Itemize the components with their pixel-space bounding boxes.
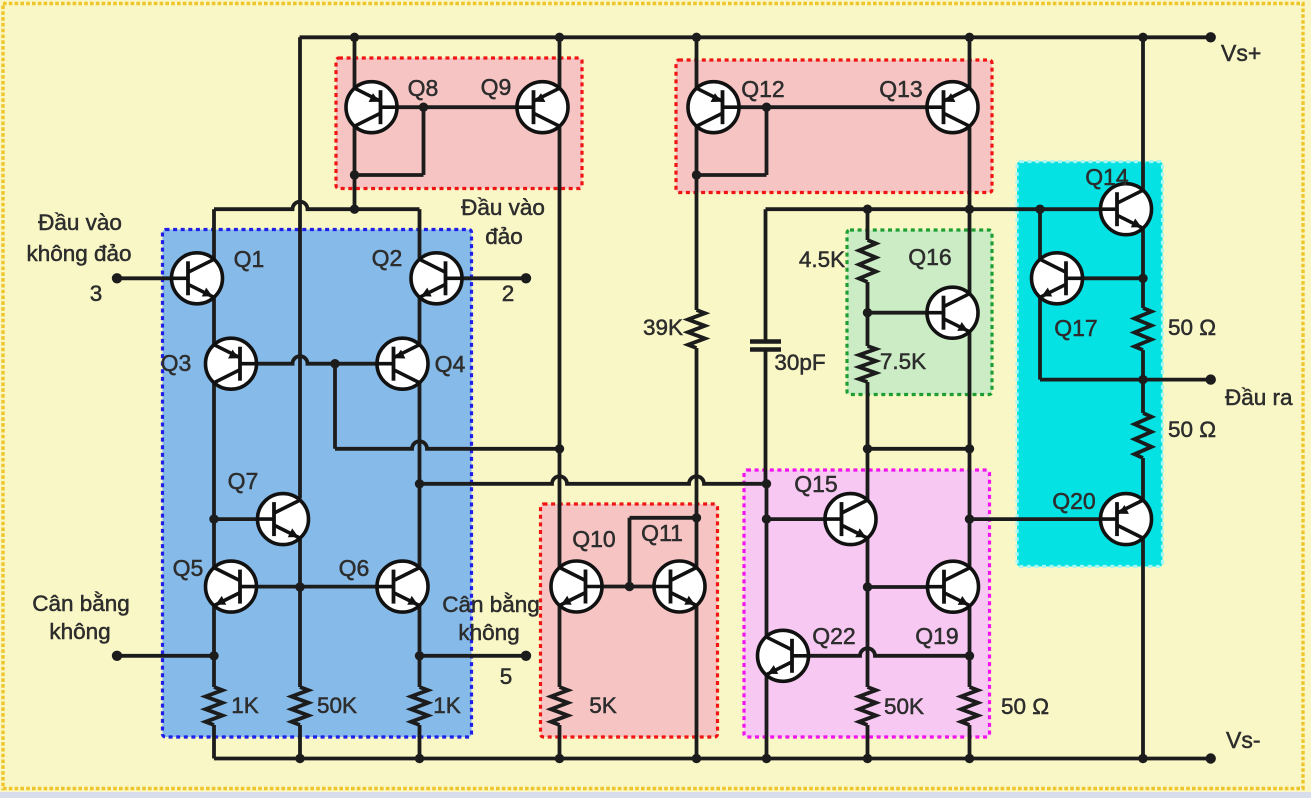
svg-text:Q13: Q13 (879, 76, 922, 102)
svg-text:Q11: Q11 (641, 520, 683, 546)
svg-text:50 Ω: 50 Ω (1168, 315, 1216, 340)
svg-text:5K: 5K (589, 693, 617, 718)
svg-text:Q20: Q20 (1052, 488, 1095, 514)
svg-text:không: không (49, 619, 110, 644)
svg-text:2: 2 (502, 281, 515, 306)
svg-text:Q15: Q15 (794, 471, 837, 497)
svg-text:Cân bằng: Cân bằng (442, 592, 540, 617)
svg-text:Q5: Q5 (173, 555, 204, 581)
svg-text:Q14: Q14 (1085, 164, 1129, 190)
svg-text:Q1: Q1 (234, 246, 265, 272)
svg-text:Q8: Q8 (408, 75, 439, 101)
svg-text:39K: 39K (643, 315, 683, 340)
svg-text:30pF: 30pF (774, 350, 825, 375)
svg-text:50K: 50K (884, 694, 924, 719)
svg-text:Q22: Q22 (812, 623, 855, 649)
svg-text:Q7: Q7 (228, 468, 259, 494)
svg-text:không đảo: không đảo (26, 241, 131, 266)
svg-text:3: 3 (90, 281, 103, 306)
svg-text:Vs-: Vs- (1226, 727, 1261, 753)
svg-text:Q17: Q17 (1054, 315, 1097, 341)
svg-text:50 Ω: 50 Ω (1168, 417, 1216, 442)
svg-text:Đầu vào: Đầu vào (461, 195, 545, 220)
svg-text:Q2: Q2 (372, 245, 403, 271)
svg-text:Đầu vào: Đầu vào (38, 210, 122, 235)
svg-text:1K: 1K (231, 693, 259, 718)
svg-text:Q19: Q19 (915, 623, 958, 649)
svg-text:Cân bằng: Cân bằng (32, 591, 130, 616)
svg-text:Q3: Q3 (161, 350, 192, 376)
svg-text:Q12: Q12 (741, 76, 784, 102)
svg-text:50K: 50K (317, 693, 357, 718)
svg-text:Vs+: Vs+ (1221, 40, 1261, 66)
svg-text:7.5K: 7.5K (880, 349, 926, 374)
svg-text:4.5K: 4.5K (799, 247, 845, 272)
svg-text:Q16: Q16 (908, 244, 951, 270)
svg-text:Q9: Q9 (481, 74, 512, 100)
svg-text:đảo: đảo (485, 224, 523, 249)
svg-text:Q6: Q6 (339, 555, 370, 581)
svg-text:50 Ω: 50 Ω (1001, 694, 1049, 719)
svg-text:1K: 1K (433, 693, 461, 718)
svg-text:Q10: Q10 (572, 526, 615, 552)
svg-text:không: không (458, 620, 519, 645)
svg-text:Q4: Q4 (435, 351, 466, 377)
svg-text:5: 5 (500, 664, 513, 689)
svg-text:Đầu ra: Đầu ra (1225, 385, 1293, 410)
